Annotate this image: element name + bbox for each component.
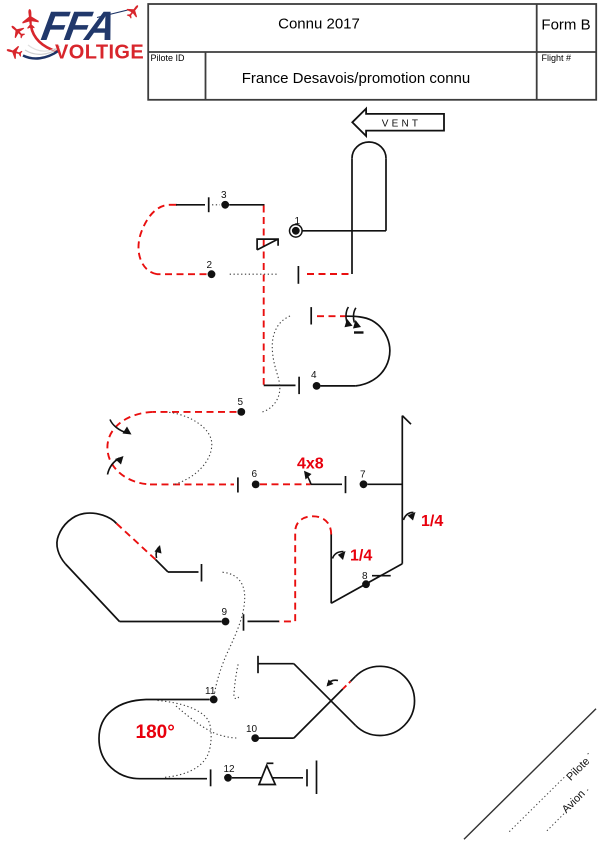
figure 10 goldfish loop bbox=[258, 664, 415, 738]
svg-text:Flight #: Flight # bbox=[542, 53, 572, 63]
svg-text:4: 4 bbox=[311, 370, 317, 381]
roll arrow on figure 9 bbox=[156, 547, 159, 558]
quarter roll arrow on figure 8 bbox=[333, 552, 344, 559]
FFA Voltige logo bbox=[5, 2, 144, 64]
figure 9 entry and loop arc bbox=[57, 513, 222, 621]
start dot 2 bbox=[208, 270, 216, 278]
dotted connector 4 to 5 bbox=[262, 316, 290, 412]
svg-text:12: 12 bbox=[224, 764, 236, 775]
figure 8 dashed loop over bbox=[279, 516, 331, 621]
legend solid diagonal bbox=[464, 709, 596, 840]
svg-text:6: 6 bbox=[252, 469, 258, 480]
svg-text:2: 2 bbox=[207, 260, 213, 271]
svg-text:Pilote ID: Pilote ID bbox=[151, 53, 186, 63]
tick on diagonal bbox=[372, 575, 391, 577]
svg-text:1: 1 bbox=[295, 216, 301, 227]
figure 6 exit line and tick bbox=[311, 476, 346, 493]
start dot 4 bbox=[313, 382, 321, 390]
wind direction arrow VENT bbox=[352, 109, 444, 136]
legend label Pilote bbox=[562, 753, 593, 784]
figure 2 exit line and tick bbox=[176, 197, 209, 212]
figure 5 dotted aircraft path bbox=[169, 412, 212, 484]
half roll bar mark bbox=[354, 331, 364, 333]
start dot 5 bbox=[237, 408, 245, 416]
spin symbol bbox=[257, 239, 278, 250]
svg-text:VENT: VENT bbox=[382, 118, 421, 129]
start dot 1 with ring bbox=[292, 227, 300, 235]
start dot 3 bbox=[221, 201, 229, 209]
figure 9 dashed 45 down line bbox=[117, 524, 156, 560]
figure 8 exit line and tick bbox=[244, 614, 280, 631]
dotted connector 2 to 3 bbox=[212, 204, 220, 206]
figure 12 line bbox=[232, 777, 303, 779]
figure 11 dotted aircraft path bbox=[158, 701, 212, 778]
svg-text:7: 7 bbox=[360, 470, 366, 481]
dotted connector 10 exit hook bbox=[234, 664, 239, 698]
roll arrows on figure 4 bbox=[346, 307, 356, 323]
start dot 11 bbox=[210, 696, 218, 704]
legend label Avion bbox=[559, 786, 589, 816]
roll arrow on figure 10 bbox=[328, 680, 339, 684]
roll arrow upper on figure 5 bbox=[110, 420, 127, 433]
svg-text:4x8: 4x8 bbox=[297, 456, 324, 473]
figure 9 exit lines and tick bbox=[156, 560, 202, 582]
svg-text:3: 3 bbox=[221, 190, 227, 201]
header table grid bbox=[148, 4, 596, 100]
start dot 10 bbox=[251, 734, 259, 742]
figure 7 exit diagonal bbox=[331, 564, 402, 604]
svg-text:VOLTIGE: VOLTIGE bbox=[55, 42, 144, 64]
dotted connector 9 to 11 bbox=[214, 572, 245, 696]
figure 8 climb line bbox=[330, 534, 332, 603]
svg-text:Connu 2017: Connu 2017 bbox=[278, 16, 360, 33]
roll arrow on figure 6 bbox=[306, 474, 312, 485]
figure 1 exit dashed line bbox=[303, 273, 349, 275]
quarter roll arrow on figure 7 bbox=[404, 512, 414, 520]
figure 12 exit tick bbox=[306, 769, 308, 786]
figure 6 dashed roll line bbox=[260, 483, 311, 485]
figure 4 exit tick bbox=[310, 307, 312, 324]
legend Avion dotted line bbox=[547, 790, 588, 831]
sequence end bar bbox=[316, 761, 318, 795]
svg-text:5: 5 bbox=[238, 397, 244, 408]
figure 4 exit dashed line bbox=[315, 315, 347, 317]
start dot 7 bbox=[360, 480, 368, 488]
svg-text:France Desavois/promotion conn: France Desavois/promotion connu bbox=[242, 70, 470, 87]
figure 3 entry line bbox=[229, 204, 264, 206]
figure 3 exit line and tick bbox=[264, 377, 299, 394]
legend Pilote dotted line bbox=[509, 753, 589, 832]
figure 7 entry line and vertical bbox=[368, 416, 412, 564]
svg-text:8: 8 bbox=[362, 571, 368, 582]
figure 2 dashed half loop bbox=[138, 205, 206, 274]
svg-text:180°: 180° bbox=[136, 722, 175, 743]
dotted connector 1 to 2 bbox=[230, 273, 279, 275]
svg-text:10: 10 bbox=[246, 724, 258, 735]
figure 1 flight path bbox=[302, 142, 386, 274]
start dot 6 bbox=[252, 481, 260, 489]
svg-text:9: 9 bbox=[222, 607, 228, 618]
figure 11 180 degree turn bbox=[99, 700, 210, 779]
tailslide triangle symbol bbox=[259, 765, 275, 784]
roll arrow lower on figure 5 bbox=[108, 458, 120, 475]
figure 3 dashed spin down line bbox=[263, 206, 265, 385]
start dot 8 bbox=[362, 580, 370, 588]
figure 5 dashed half loop bbox=[107, 412, 236, 485]
figure 4 half loop bbox=[321, 316, 390, 386]
svg-text:1/4: 1/4 bbox=[421, 513, 443, 530]
start dot 9 bbox=[222, 618, 230, 626]
svg-text:1/4: 1/4 bbox=[350, 548, 372, 565]
figure 11 exit tick bbox=[210, 769, 212, 786]
figure 10 dashed roll segment bbox=[343, 681, 351, 689]
figure 1 exit tick bbox=[297, 266, 299, 284]
figure 5 exit tick bbox=[237, 477, 239, 492]
start dot 12 bbox=[224, 774, 232, 782]
svg-text:Form B: Form B bbox=[541, 17, 590, 34]
svg-text:11: 11 bbox=[205, 686, 216, 697]
dotted connector to 10 bbox=[176, 706, 237, 738]
figure 10 exit tick bbox=[257, 656, 259, 673]
